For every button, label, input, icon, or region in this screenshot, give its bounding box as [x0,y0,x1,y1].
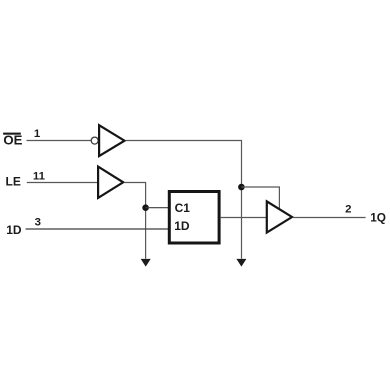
svg-text:OE: OE [3,133,22,148]
buffer U2 (LE) [98,167,123,198]
svg-text:C1: C1 [175,201,191,215]
arrow OE line continues down [236,259,246,267]
wire LE input lead [27,182,98,184]
wire 1D input lead [26,228,168,230]
svg-text:1D: 1D [6,223,22,237]
wire C1 branch to latch [146,207,168,209]
output buffer U4 (three-state) [267,201,292,232]
inverter U1 (OE) with input bubble [91,125,124,156]
junction dot LE/C1 node [142,204,149,211]
svg-text:1D: 1D [174,219,190,233]
wire OE output to vertical drop [126,141,242,259]
svg-text:11: 11 [33,170,46,182]
net OE label [3,133,23,148]
wire latch output to buffer [221,217,267,219]
svg-text:1: 1 [34,128,41,140]
junction dot OE/enable node [238,184,245,191]
wire LE output to vertical drop [124,183,145,259]
latch U3 (C1/1D) [169,192,219,244]
svg-text:2: 2 [345,204,351,216]
svg-text:LE: LE [6,175,21,189]
arrow LE line continues down [141,259,151,267]
wire 1Q output lead [293,217,366,219]
svg-text:3: 3 [35,217,41,229]
wire OE input lead [27,140,92,142]
wire enable branch to output buffer [241,187,279,211]
svg-text:1Q: 1Q [370,211,386,225]
